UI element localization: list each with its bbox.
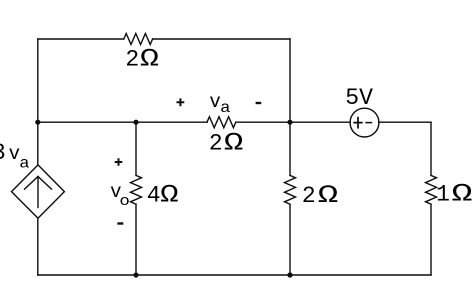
resistor R5 4ohm zigzag xyxy=(131,175,142,204)
svg-text:o: o xyxy=(119,193,129,210)
wire middle rail segment B xyxy=(236,121,350,123)
polarity minus sign va xyxy=(256,102,262,104)
svg-text:Ω: Ω xyxy=(318,183,339,210)
wire branch 290 lower xyxy=(289,204,291,275)
svg-text:v: v xyxy=(9,143,20,165)
node junction dot bottom 136 xyxy=(133,272,138,277)
voltage source V1 minus sign xyxy=(365,122,372,124)
wire branch 136 upper xyxy=(135,122,137,175)
svg-text:2: 2 xyxy=(209,130,223,156)
wire right rail upper xyxy=(430,122,432,175)
voltage source V1 5V circle xyxy=(350,108,379,137)
resistor R4 2ohm vertical zigzag xyxy=(285,175,296,204)
wire left rail lower xyxy=(37,218,39,275)
wire branch 290 upper xyxy=(289,39,291,175)
node junction dot mid 136 xyxy=(133,120,138,125)
svg-text:2: 2 xyxy=(125,47,139,73)
polarity minus sign vo xyxy=(117,222,123,224)
svg-text:5V: 5V xyxy=(345,85,373,111)
svg-text:Ω: Ω xyxy=(224,130,244,157)
wire left rail upper xyxy=(37,39,39,165)
node junction dot bottom 290 xyxy=(287,272,292,277)
svg-text:1: 1 xyxy=(436,182,450,208)
wire bottom rail xyxy=(38,274,431,276)
wire top rail left segment xyxy=(38,38,124,40)
svg-text:a: a xyxy=(220,99,231,117)
dependent source U1 diamond 3va xyxy=(12,165,65,218)
svg-text:Ω: Ω xyxy=(160,183,179,210)
node junction dot left mid xyxy=(35,120,40,125)
resistor R2 2ohm va zigzag xyxy=(207,117,236,128)
resistor R3 1ohm zigzag xyxy=(426,175,437,204)
svg-text:4: 4 xyxy=(147,183,161,209)
node junction dot mid 290 xyxy=(287,120,292,125)
polarity plus sign va xyxy=(177,98,185,106)
resistor R1 2ohm top zigzag xyxy=(124,34,153,45)
svg-text:3: 3 xyxy=(0,140,6,166)
voltage source V1 plus sign xyxy=(353,117,362,129)
svg-text:Ω: Ω xyxy=(140,47,159,74)
wire top rail right segment xyxy=(153,38,290,40)
wire middle rail segment A xyxy=(38,121,207,123)
polarity plus sign vo xyxy=(115,158,123,166)
wire middle rail segment C xyxy=(379,121,431,123)
dependent source arrow shaft xyxy=(37,177,39,208)
wire branch 136 lower xyxy=(135,204,137,275)
wire right rail lower xyxy=(430,204,432,275)
svg-text:a: a xyxy=(19,154,30,172)
dependent source arrow head xyxy=(25,177,52,190)
svg-text:Ω: Ω xyxy=(452,182,473,209)
svg-text:2: 2 xyxy=(302,183,316,209)
svg-text:v: v xyxy=(209,91,220,113)
